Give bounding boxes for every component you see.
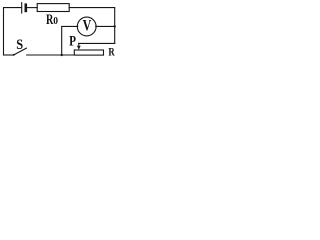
- wire top-left to battery: [4, 8, 22, 55]
- svg-text:V: V: [83, 17, 92, 35]
- svg-text:R: R: [108, 46, 115, 58]
- battery cell short thick plate: [24, 5, 27, 11]
- battery cell long plate: [21, 3, 23, 13]
- svg-text:P: P: [69, 32, 76, 49]
- junction dot at voltmeter right wire: [114, 25, 116, 27]
- bottom rail switch to rheostat: [27, 54, 75, 56]
- switch S blade: [14, 48, 27, 55]
- wiper arrowhead: [77, 46, 81, 50]
- junction dot at voltmeter branch bottom: [61, 54, 63, 56]
- bottom rail left segment to switch: [4, 54, 14, 56]
- rheostat R box: [74, 50, 103, 55]
- switch pivot dot: [13, 54, 15, 56]
- wire right side to wiper corner: [79, 42, 115, 44]
- resistor R0 box: [37, 4, 69, 12]
- voltmeter right wire: [96, 25, 115, 27]
- voltmeter circle U1: [77, 17, 96, 36]
- wiper arrow P stem: [78, 43, 80, 47]
- wire R0 to top-right corner and down right side: [69, 8, 115, 44]
- svg-text:0: 0: [53, 16, 58, 27]
- voltmeter left wire: [62, 26, 78, 55]
- svg-text:S: S: [16, 36, 23, 52]
- wire battery to R0 box: [27, 7, 37, 9]
